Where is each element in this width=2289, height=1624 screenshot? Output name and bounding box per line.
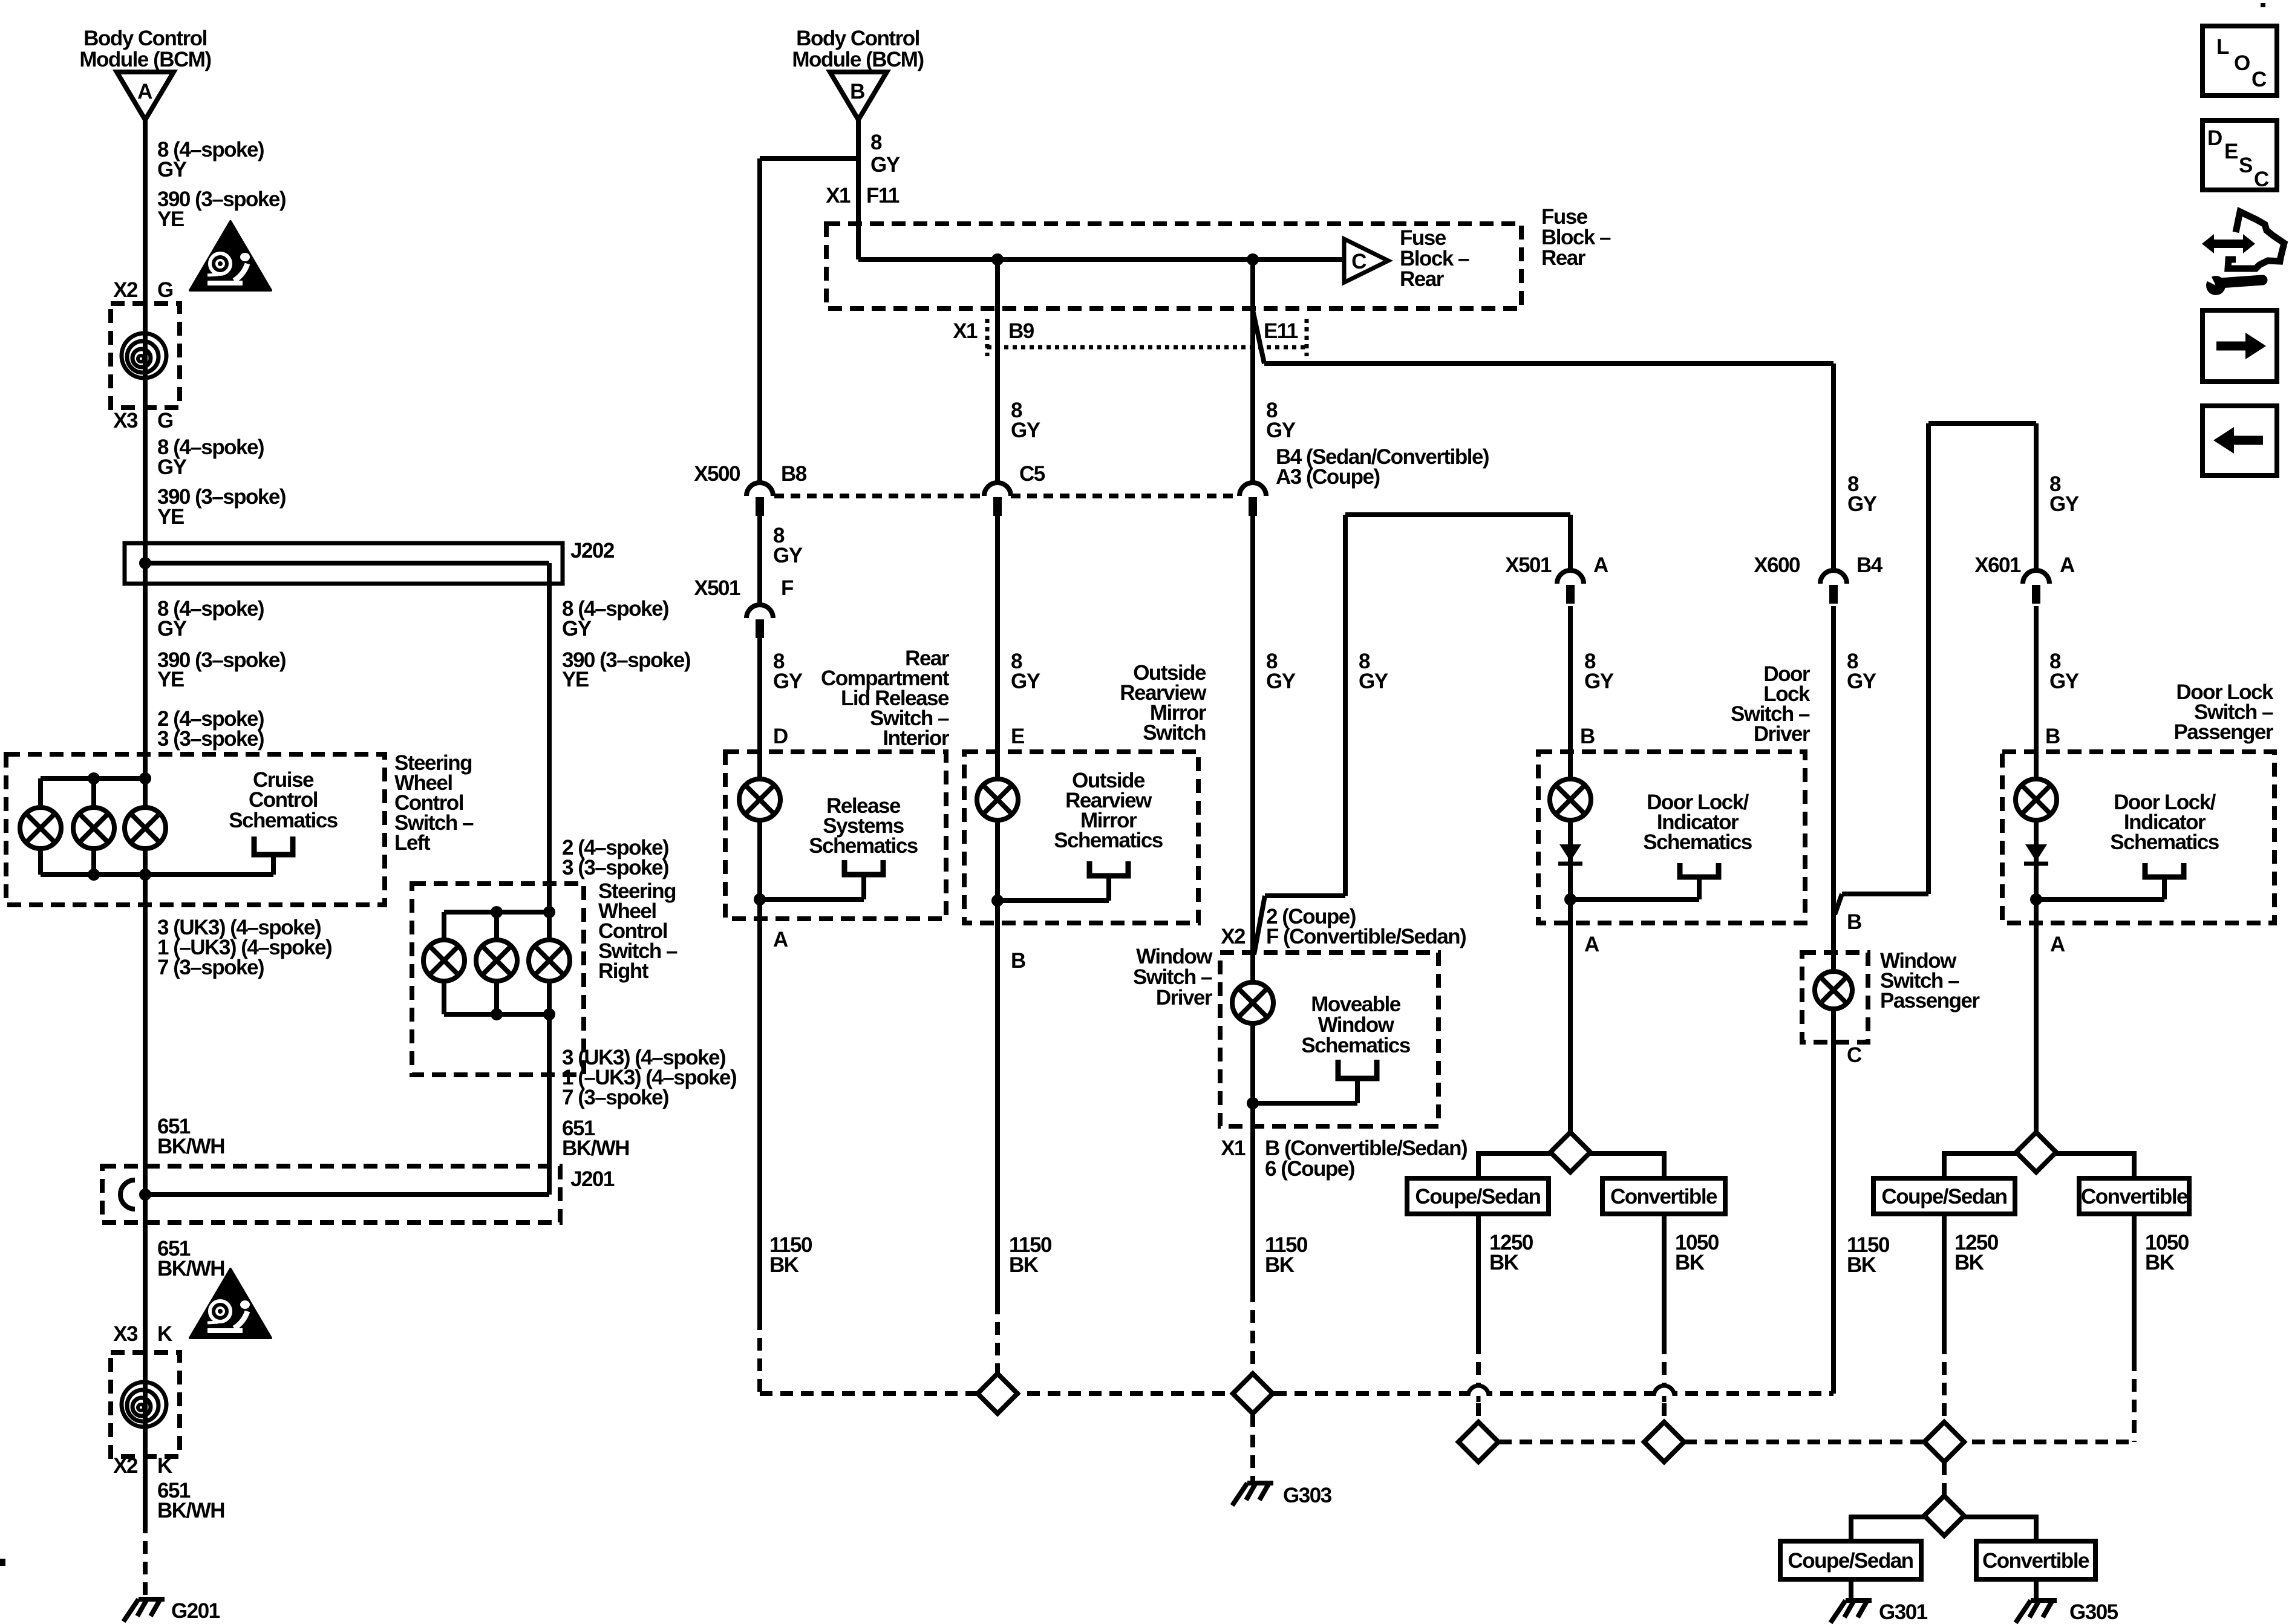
svg-text:G: G [157, 278, 173, 302]
clip symbol inside J201 [120, 1180, 135, 1209]
svg-text:GY: GY [1584, 670, 1614, 693]
splice diamond: ground split G301/G305 [1924, 1496, 1964, 1536]
connector X500 dashed line C5-B4 [1011, 494, 1239, 498]
lamp: window switch passenger [1815, 971, 1852, 1009]
lamp: outside rearview mirror [977, 779, 1018, 820]
door lock passenger indicator dashed box [2002, 752, 2274, 923]
svg-text:X601: X601 [1974, 553, 2021, 577]
wire: J201 internal horizontal [145, 1192, 549, 1197]
svg-text:X1: X1 [1221, 1136, 1246, 1160]
label box Coupe/Sedan passenger [1873, 1178, 2015, 1214]
moveable window schematics dashed box [1220, 953, 1438, 1126]
wire: bus2 dashed drop to ground splice [1942, 1442, 1947, 1516]
svg-text:X2: X2 [1221, 925, 1246, 948]
wire: E11 to X500 B4/A3 vertical [1250, 310, 1255, 482]
svg-text:BK: BK [1009, 1253, 1039, 1277]
connector X500 C5 [984, 483, 1011, 516]
wire: X500 B8 stub to X501 F [757, 514, 762, 603]
wire: window passenger B jog diagonal [1835, 894, 1842, 915]
ground symbol G201 [123, 1599, 165, 1622]
svg-text:B: B [2045, 725, 2060, 748]
svg-text:C5: C5 [1019, 462, 1045, 486]
connector X501 F [746, 605, 773, 638]
svg-text:X500: X500 [694, 462, 740, 486]
wire: X601 n-shape left vertical [1926, 423, 1931, 894]
svg-text:X501: X501 [1505, 553, 1552, 577]
svg-text:Module (BCM): Module (BCM) [79, 48, 211, 71]
svg-text:F (Convertible/Sedan): F (Convertible/Sedan) [1266, 925, 1466, 948]
schematic reference bracket: door lock passenger [2145, 863, 2184, 877]
svg-text:E: E [1011, 725, 1024, 748]
svg-text:YE: YE [157, 207, 184, 231]
connector triangle C (fuse block rear) [1344, 239, 1388, 282]
junction dot: fuse feed E11 [1247, 253, 1259, 266]
wire: release systems internal bus [760, 897, 864, 902]
svg-text:GY: GY [1359, 670, 1388, 693]
wire: fuse E11 output vertical upper [1250, 259, 1255, 310]
label box Convertible passenger [2079, 1178, 2189, 1214]
junction dot: right switch top bus b [543, 906, 555, 918]
wire: door lock driver schematic-reference stem [1697, 877, 1702, 899]
wire: 1250 BK passenger drop dashed to bus2 [1942, 1342, 1947, 1442]
svg-text:J201: J201 [570, 1167, 615, 1191]
wire: X601 A column vertical to door lock passenger [2034, 606, 2039, 899]
sidebar schematic navigation icon outline [2228, 212, 2284, 269]
wire: X500 B8 column vertical upper [757, 158, 762, 483]
splice diamond: mirror ground bus [978, 1374, 1017, 1414]
svg-text:X2: X2 [113, 278, 138, 302]
svg-text:B: B [1011, 949, 1025, 973]
svg-text:G201: G201 [171, 1599, 220, 1623]
svg-text:K: K [157, 1322, 172, 1346]
svg-text:X3: X3 [113, 409, 138, 432]
wire: BCM B branch horizontal to X500 B8 column [760, 156, 858, 161]
svg-text:B4: B4 [1856, 553, 1883, 577]
wire: X601 n-shape right vertical [2034, 423, 2039, 570]
connector triangle A (BCM) [117, 72, 174, 120]
svg-text:B9: B9 [1008, 319, 1034, 343]
inflatable restraint coil dashed box lower [111, 1352, 180, 1456]
lamp: cruise control 2 [73, 807, 114, 849]
svg-text:GY: GY [2049, 670, 2079, 693]
svg-text:F: F [781, 576, 794, 600]
wire: steering wheel right lamp 2 branch [494, 912, 499, 1014]
svg-text:B: B [1580, 725, 1595, 748]
svg-text:Body Control: Body Control [83, 27, 207, 50]
svg-text:8: 8 [870, 131, 882, 154]
wire: window switch driver n-branch diagonal [1254, 896, 1265, 954]
svg-text:B: B [1847, 910, 1861, 934]
svg-text:GY: GY [1266, 419, 1296, 442]
svg-text:YE: YE [157, 505, 184, 529]
cruise control schematics dashed box [6, 754, 385, 905]
wire: mirror schematic-reference stem [1106, 876, 1111, 901]
svg-text:Coupe/Sedan: Coupe/Sedan [1788, 1549, 1913, 1573]
svg-text:X3: X3 [113, 1322, 138, 1346]
fuse block rear dashed body [826, 224, 1521, 308]
splice pack J201 dashed body [102, 1166, 560, 1222]
wire: G305 drop [2034, 1579, 2039, 1602]
splice diamond: bus2 1050 driver [1644, 1422, 1684, 1462]
connector X500 dashed line B8-C5 [774, 494, 984, 498]
svg-text:Rear: Rear [1541, 246, 1586, 270]
svg-text:BK: BK [769, 1253, 799, 1277]
diode: door lock passenger [2025, 844, 2047, 861]
svg-text:Schematics: Schematics [1301, 1034, 1411, 1057]
svg-text:J202: J202 [570, 539, 615, 563]
svg-text:F11: F11 [866, 184, 900, 207]
schematic reference bracket: door lock driver [1680, 863, 1719, 877]
svg-text:X501: X501 [694, 576, 740, 600]
wire: cruise control lamp 2 branch [91, 778, 96, 875]
svg-text:G305: G305 [2069, 1600, 2118, 1624]
svg-text:Schematics: Schematics [2110, 830, 2219, 854]
svg-text:BK/WH: BK/WH [157, 1499, 224, 1522]
wire: door lock driver elbow to Convertible [1590, 1153, 1664, 1178]
connector X500 B4/A3 [1239, 483, 1266, 516]
connector triangle B (BCM) [830, 72, 887, 120]
svg-text:Switch: Switch [1143, 721, 1206, 745]
wire: 1250 BK driver drop solid [1476, 1214, 1481, 1342]
svg-text:Schematics: Schematics [809, 834, 918, 858]
svg-text:Driver: Driver [1156, 986, 1213, 1009]
wire: E11 diagonal jog [1253, 310, 1264, 364]
svg-text:A: A [2060, 553, 2075, 577]
wire: window switch driver n-branch horizontal [1265, 893, 1345, 898]
connector X600 B4 [1820, 570, 1847, 604]
wire: cruise control top bus [41, 776, 145, 781]
svg-text:7 (3–spoke): 7 (3–spoke) [562, 1086, 668, 1109]
svg-text:BK: BK [1954, 1251, 1984, 1274]
svg-text:S: S [2239, 154, 2252, 177]
airbag warning symbol upper [190, 221, 271, 290]
junction dot: J201 [139, 1189, 151, 1201]
lamp: moveable window driver [1232, 982, 1273, 1023]
svg-text:Driver: Driver [1754, 722, 1811, 746]
svg-text:Right: Right [598, 959, 649, 983]
junction dot: release bus [754, 893, 766, 905]
sidebar icon wrench [2206, 276, 2225, 295]
wire: G301 drop [1849, 1579, 1853, 1602]
wire: fuse block F11 feed horizontal to triangle C [858, 257, 1344, 262]
wire: n-branch top horizontal [1345, 512, 1570, 517]
lamp: door lock driver [1550, 779, 1591, 820]
ground symbol G305 [2016, 1600, 2057, 1623]
svg-text:GY: GY [157, 455, 187, 479]
coil symbol upper (SIR coil) [122, 333, 166, 378]
lamp: steering wheel right 3 [529, 940, 570, 981]
coil symbol lower (SIR coil) [122, 1382, 166, 1427]
svg-text:A3 (Coupe): A3 (Coupe) [1276, 465, 1380, 489]
svg-text:A: A [773, 928, 788, 951]
wire: release systems A output vertical [757, 899, 762, 1317]
wire: 1050 BK driver drop dashed to bus2 [1662, 1342, 1667, 1442]
wire: cruise control lamp 1 branch [38, 778, 43, 875]
release systems schematics dashed box [725, 752, 946, 919]
ground symbol G301 [1830, 1600, 1872, 1623]
svg-text:Coupe/Sedan: Coupe/Sedan [1415, 1185, 1540, 1208]
wire: ground bus 2 horizontal [1478, 1440, 2134, 1444]
inflatable restraint coil dashed box upper [111, 304, 180, 408]
svg-text:A: A [1593, 553, 1608, 577]
schematic reference bracket: release [844, 860, 883, 875]
connector X1 B9 tick [985, 319, 990, 356]
svg-text:B: B [850, 80, 864, 103]
svg-text:Coupe/Sedan: Coupe/Sedan [1881, 1185, 2007, 1208]
wire: ground splice elbow to Coupe/Sedan G301 [1851, 1517, 1926, 1541]
steering wheel control switch right dashed box [412, 884, 584, 1075]
wire: mirror dashed drop to ground bus [995, 1302, 1000, 1394]
splice diamond: door lock passenger split [2016, 1132, 2056, 1172]
svg-text:YE: YE [562, 668, 589, 691]
junction dot: right switch top bus a [491, 906, 503, 918]
ground symbol G303 [1232, 1483, 1273, 1505]
svg-text:X2: X2 [113, 1454, 138, 1478]
wire: door lock passenger elbow to Convertible [2056, 1153, 2134, 1178]
wire: window switch driver X1-B output vertical [1250, 1103, 1255, 1290]
svg-text:Passenger: Passenger [2173, 720, 2273, 744]
schematic reference bracket: moveable window [1338, 1060, 1377, 1078]
sidebar right arrow button [2202, 310, 2277, 382]
junction dot: J202 [139, 557, 151, 569]
svg-text:3 (3–spoke): 3 (3–spoke) [562, 856, 668, 879]
lamp: cruise control 1 [20, 807, 61, 849]
svg-text:X1: X1 [953, 319, 978, 343]
schematic reference bracket: mirror [1089, 861, 1128, 876]
svg-text:A: A [137, 80, 152, 103]
svg-text:Schematics: Schematics [1054, 829, 1163, 852]
svg-text:G303: G303 [1283, 1484, 1332, 1507]
svg-text:E: E [2224, 140, 2238, 163]
svg-text:D: D [2207, 126, 2222, 150]
svg-text:X600: X600 [1754, 553, 1800, 577]
svg-text:C: C [1847, 1043, 1862, 1067]
wire: mirror internal bus [998, 898, 1109, 903]
svg-text:BK/WH: BK/WH [562, 1136, 629, 1160]
wire: X600 column vertical from E11 feed [1831, 364, 1836, 570]
splice pack J202 body [125, 543, 563, 584]
svg-text:C: C [2251, 68, 2267, 91]
svg-text:Body Control: Body Control [796, 27, 919, 50]
connector X501 A [1557, 570, 1584, 604]
svg-text:BK: BK [1847, 1253, 1876, 1277]
wire: J202 internal horizontal [145, 561, 549, 566]
wire: door lock passenger elbow to Coupe/Sedan [1944, 1153, 2018, 1178]
splice diamond: door lock driver split [1550, 1132, 1590, 1172]
svg-text:C: C [2254, 168, 2269, 191]
svg-text:E11: E11 [1264, 319, 1298, 343]
wire: n-branch right vertical down to X501 A [1568, 515, 1573, 570]
wire: steering wheel right bottom bus [444, 1012, 549, 1017]
junction dot: cruise top bus b [139, 772, 151, 784]
svg-text:Convertible: Convertible [1982, 1549, 2089, 1573]
junction dot: cruise bottom bus b [139, 869, 151, 881]
sidebar left arrow button [2202, 406, 2277, 475]
outside rearview mirror schematics dashed box [964, 752, 1198, 923]
wire: X600 stub down through window switch passenger [1831, 606, 1836, 1394]
svg-text:3 (3–spoke): 3 (3–spoke) [157, 727, 264, 751]
wire: 1250 BK passenger drop solid [1942, 1214, 1947, 1342]
connector X500 B8 [746, 483, 773, 516]
svg-text:K: K [157, 1454, 172, 1478]
svg-text:GY: GY [157, 158, 187, 181]
wire: door lock driver elbow to Coupe/Sedan [1478, 1153, 1552, 1178]
door lock driver indicator dashed box [1538, 752, 1805, 923]
svg-text:Passenger: Passenger [1880, 989, 1980, 1013]
page mark top right [2261, 3, 2265, 7]
svg-text:Convertible: Convertible [1610, 1185, 1717, 1208]
svg-text:BK: BK [1489, 1251, 1519, 1274]
junction dot: door lock passenger bus [2030, 893, 2042, 905]
connector X601 A [2023, 570, 2049, 604]
svg-text:Convertible: Convertible [2081, 1185, 2188, 1208]
wire: door lock passenger internal bus [2036, 897, 2164, 902]
wire: X501 A column vertical to door lock driver [1568, 606, 1573, 899]
svg-text:GY: GY [1847, 670, 1876, 693]
label box Coupe/Sedan ground [1780, 1541, 1921, 1579]
svg-text:BK/WH: BK/WH [157, 1135, 224, 1158]
svg-text:A: A [1584, 933, 1599, 956]
wire: 1050 BK driver drop solid [1662, 1214, 1667, 1342]
splice diamond: bus2 1250 driver [1458, 1422, 1498, 1462]
junction dot: cruise top bus a [88, 772, 100, 784]
svg-text:GY: GY [773, 670, 803, 693]
wire: moveable window internal bus [1253, 1101, 1357, 1106]
wire: G303 dashed drop [1250, 1394, 1255, 1482]
junction dot: door lock driver bus [1564, 893, 1576, 905]
svg-text:Interior: Interior [883, 726, 949, 750]
svg-text:A: A [2050, 933, 2065, 956]
label box Convertible driver [1602, 1178, 1725, 1214]
svg-text:B8: B8 [781, 462, 807, 486]
svg-text:6 (Coupe): 6 (Coupe) [1265, 1157, 1354, 1181]
junction dot: right switch bottom bus b [543, 1008, 555, 1020]
crossover hop: 1250 driver over bus1 [1468, 1385, 1489, 1402]
label box Convertible ground [1976, 1541, 2095, 1579]
sidebar LOC button [2202, 26, 2277, 96]
schematic reference bracket: cruise [254, 836, 293, 855]
svg-text:GY: GY [157, 617, 187, 641]
wire: left vertical dashed segment to G201 [143, 1521, 148, 1597]
airbag warning symbol lower [190, 1269, 271, 1338]
svg-text:X1: X1 [826, 184, 851, 207]
lamp: release systems [739, 779, 780, 820]
wire: 1050 BK passenger drop solid [2132, 1214, 2137, 1358]
wire: window passenger B jog horizontal [1842, 892, 1928, 896]
wire: 1050 BK passenger drop dashed to bus2 corner [2132, 1358, 2137, 1442]
svg-text:D: D [773, 725, 788, 748]
svg-text:Left: Left [394, 831, 431, 855]
wire: door lock driver A output vertical [1568, 899, 1573, 1133]
page mark bottom left [0, 1559, 5, 1566]
lamp: cruise control 3 [125, 807, 166, 849]
lamp: steering wheel right 2 [476, 940, 517, 981]
wire: BCM A to ground G201 main left vertical [143, 120, 148, 1521]
svg-text:BK: BK [1265, 1253, 1295, 1277]
wire: n-branch left vertical up [1343, 515, 1348, 896]
wire: X601 n-shape top horizontal [1928, 421, 2036, 426]
wire: cruise control schematic-reference stem [271, 855, 276, 875]
svg-text:Rear: Rear [1400, 267, 1445, 291]
svg-text:GY: GY [1847, 492, 1877, 516]
connector X1 E11 tick [1305, 319, 1309, 356]
wire: steering wheel right top bus [444, 910, 549, 915]
lamp: steering wheel right 1 [423, 940, 465, 981]
junction dot: mirror bus [991, 895, 1004, 907]
svg-text:G301: G301 [1879, 1600, 1928, 1624]
wire: E11 long horizontal to X600 column [1264, 361, 1833, 366]
svg-text:BK: BK [2145, 1251, 2175, 1274]
window switch passenger dashed box [1802, 953, 1868, 1042]
sidebar icon double arrow [2208, 240, 2249, 248]
sidebar DESC button [2202, 120, 2277, 190]
splice diamond: window driver ground bus [1233, 1374, 1273, 1414]
wire: steering wheel right lamp 1 branch [442, 912, 446, 1014]
wire: mirror B output vertical [995, 901, 1000, 1302]
svg-text:GY: GY [1011, 670, 1040, 693]
svg-text:GY: GY [2049, 492, 2079, 516]
junction dot: fuse feed B9 [991, 253, 1004, 266]
wire: ground splice elbow to Convertible G305 [1962, 1517, 2036, 1541]
svg-text:GY: GY [773, 544, 803, 567]
splice diamond: bus2 passenger [1924, 1422, 1964, 1462]
svg-text:C: C [1351, 250, 1367, 273]
svg-text:G: G [157, 409, 173, 432]
svg-text:GY: GY [870, 153, 900, 177]
wire: mirror switch column vertical [995, 514, 1000, 901]
wire: ground bus 1 left riser corner [760, 1391, 1833, 1396]
svg-text:O: O [2234, 51, 2250, 75]
junction dot: moveable window bus [1247, 1097, 1259, 1109]
wire: BCM B vertical to fuse block [856, 117, 861, 259]
wire: moveable window schematic-reference stem [1355, 1078, 1360, 1103]
svg-text:BK/WH: BK/WH [157, 1257, 224, 1280]
svg-text:YE: YE [157, 668, 184, 691]
svg-text:Schematics: Schematics [1643, 830, 1752, 854]
wire: window switch driver column vertical [1250, 514, 1255, 1103]
svg-text:GY: GY [1266, 670, 1296, 693]
wire: X501 F stub down to release systems box [757, 635, 762, 919]
svg-text:Module (BCM): Module (BCM) [792, 48, 923, 71]
lamp: door lock passenger [2016, 779, 2057, 820]
wire: door lock driver internal bus [1570, 897, 1699, 902]
diode: door lock driver [1559, 844, 1581, 861]
svg-text:7 (3–spoke): 7 (3–spoke) [157, 956, 264, 979]
svg-text:GY: GY [1011, 419, 1040, 442]
wire: window driver dashed drop to ground bus [1250, 1290, 1255, 1394]
connector X1 bottom dotted line [987, 345, 1307, 350]
wire: door lock passenger A output vertical [2034, 899, 2039, 1133]
wire: release systems dashed drop to ground bus [757, 1317, 762, 1394]
svg-text:Schematics: Schematics [229, 809, 338, 832]
wire: fuse B9 output vertical [995, 259, 1000, 482]
junction dot: right switch bottom bus a [491, 1008, 503, 1020]
label box Coupe/Sedan driver [1407, 1178, 1549, 1214]
wire: J202 right branch vertical (steering wheel right column) [547, 563, 552, 1195]
svg-text:BK: BK [1675, 1251, 1705, 1274]
wire: cruise control bottom bus [41, 872, 273, 877]
junction dot: cruise bottom bus a [88, 869, 100, 881]
wire: 1250 BK driver drop dashed to bus2 [1476, 1342, 1481, 1442]
wire: door lock passenger schematic-reference stem [2162, 877, 2167, 899]
wire: release systems schematic-reference stem [861, 875, 866, 899]
crossover hop: 1050 driver over bus1 [1654, 1385, 1674, 1402]
svg-text:GY: GY [562, 617, 592, 641]
svg-text:L: L [2216, 35, 2229, 59]
